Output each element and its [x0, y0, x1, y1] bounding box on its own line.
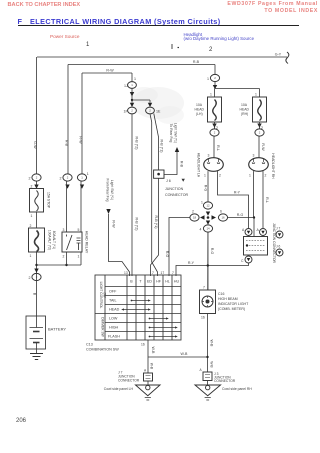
svg-text:1: 1 [78, 255, 80, 259]
headlight LH [204, 158, 224, 172]
wire indicator feed down [207, 232, 209, 290]
wire left main vertical [36, 57, 38, 174]
svg-text:HEAD: HEAD [240, 108, 250, 112]
svg-text:2: 2 [216, 126, 218, 130]
svg-text:(LH): (LH) [196, 112, 203, 116]
svg-text:C16: C16 [218, 292, 224, 296]
title: F ELECTRICAL WIRING DIAGRAM [18, 17, 22, 26]
svg-text:HU: HU [174, 280, 180, 284]
svg-text:3: 3 [253, 154, 255, 158]
svg-text:Cowl side panel LH: Cowl side panel LH [104, 387, 134, 391]
svg-text:HEADLIGHT RH: HEADLIGHT RH [271, 153, 275, 179]
svg-text:FLASH: FLASH [108, 335, 120, 339]
svg-text:13: 13 [124, 271, 128, 275]
svg-text:W-B: W-B [181, 352, 189, 356]
arrow below coil connector [65, 185, 69, 189]
svg-text:DIMMER SW: DIMMER SW [101, 317, 105, 337]
connector on battery wire [32, 273, 41, 280]
svg-text:R-G: R-G [237, 213, 244, 217]
svg-text:CONNECTOR: CONNECTOR [214, 379, 236, 383]
link: BACK TO CHAPTER INDEX [8, 2, 81, 8]
svg-text:R-W: R-W [112, 220, 116, 228]
pin circle A left [245, 229, 252, 236]
G-Y continuation curl [286, 52, 289, 64]
svg-text:R-B: R-B [180, 161, 184, 168]
headlight RH [249, 158, 269, 172]
svg-text:16: 16 [221, 216, 225, 220]
connector 1E [146, 107, 155, 114]
arrow from rear fog [106, 209, 110, 214]
wire between fuses [36, 181, 38, 228]
wire switch ED to ground [147, 340, 149, 373]
node junction dot [131, 99, 133, 101]
svg-text:BATTERY: BATTERY [48, 327, 66, 332]
svg-text:1: 1 [210, 93, 212, 97]
svg-text:1: 1 [204, 174, 206, 178]
svg-text:TAIL: TAIL [109, 299, 117, 303]
wire right branch to JC [228, 218, 254, 237]
arrow below 1J [130, 92, 134, 97]
svg-text:(COMB. METER): (COMB. METER) [218, 307, 245, 311]
wire to headlight fuses [215, 82, 260, 98]
svg-text:R-G: R-G [204, 185, 208, 192]
svg-text:JUNCTION: JUNCTION [165, 187, 184, 191]
table headers [130, 280, 179, 284]
svg-text:14: 14 [206, 227, 210, 231]
svg-text:C13: C13 [86, 343, 93, 347]
svg-text:To Rear Fog: To Rear Fog [169, 124, 173, 143]
column tick 1 [171, 44, 173, 49]
svg-text:HEADLIGHT LH: HEADLIGHT LH [197, 153, 201, 178]
label J6 junction connector [165, 179, 188, 197]
connector on relay coil wire [63, 174, 72, 181]
node R-G joins RH pin1 [253, 216, 255, 218]
svg-text:R-L: R-L [216, 145, 220, 151]
wire RH pin1 down [253, 171, 255, 217]
wire jc bottom to R-Y bus [176, 263, 249, 276]
svg-text:1: 1 [249, 174, 251, 178]
svg-text:G-W: G-W [33, 141, 37, 149]
wire 1E straight to switch [150, 114, 158, 276]
svg-text:2: 2 [67, 176, 69, 180]
svg-text:5: 5 [78, 228, 80, 232]
table contact arrows [124, 301, 175, 337]
svg-text:R-B (*1): R-B (*1) [160, 140, 164, 153]
junction connector J6 box [154, 170, 164, 178]
svg-text:1: 1 [31, 214, 33, 218]
battery [26, 316, 46, 349]
connector right of junction [218, 214, 227, 221]
wire indicator to ground [207, 314, 209, 373]
node main junction [35, 264, 37, 266]
connector RH 2 [255, 129, 264, 136]
link: EWD307F Pages From Manual [227, 1, 318, 14]
svg-text:SW: SW [103, 292, 107, 298]
svg-text:4: 4 [200, 228, 202, 232]
svg-text:2: 2 [265, 174, 267, 178]
svg-text:R-B (*1): R-B (*1) [154, 216, 158, 229]
svg-text:12: 12 [206, 204, 210, 208]
column label 2 [209, 47, 212, 53]
svg-text:R-W: R-W [79, 136, 83, 144]
svg-text:G-Y: G-Y [275, 53, 282, 57]
svg-text:A: A [242, 228, 245, 232]
svg-text:LIGHT CONTROL: LIGHT CONTROL [99, 282, 103, 309]
svg-text:80A ALT (*1): 80A ALT (*1) [52, 231, 56, 249]
svg-text:CONNECTOR: CONNECTOR [118, 379, 140, 383]
svg-text:1: 1 [255, 93, 257, 97]
svg-text:2: 2 [29, 276, 31, 280]
arrow into 1E [148, 103, 152, 107]
connector LH 2 [210, 129, 219, 136]
arrow up to rear fog light [175, 147, 179, 152]
svg-text:16: 16 [141, 343, 145, 347]
wire J6 to rear fog takeoff [164, 152, 177, 175]
fuse 10A HEAD LH [208, 97, 222, 122]
table row labels [108, 290, 120, 339]
svg-text:R-B (*2): R-B (*2) [135, 137, 139, 150]
fuse 100A ALT [29, 228, 45, 252]
junction connector J7 [144, 373, 153, 381]
svg-text:R-G: R-G [165, 251, 169, 258]
svg-text:2: 2 [29, 177, 31, 181]
indicator C16 [200, 290, 216, 314]
wire fuse RH to lamp [258, 122, 261, 158]
svg-text:HL: HL [165, 280, 170, 284]
node indicator tap [207, 264, 209, 266]
svg-text:R-G: R-G [210, 248, 214, 255]
label: Headlight source [184, 33, 255, 42]
wire rear fog to switch B [109, 214, 130, 276]
arrow below connector 2 [213, 85, 217, 89]
svg-text:2: 2 [131, 109, 133, 113]
arrow on battery wire [34, 269, 38, 273]
svg-text:INDICATOR LIGHT: INDICATOR LIGHT [218, 302, 249, 306]
label To Rear Fog Light SW [169, 123, 178, 143]
svg-text:1: 1 [201, 201, 203, 205]
svg-text:W-B: W-B [210, 340, 214, 348]
svg-text:R-B (*2): R-B (*2) [135, 218, 139, 231]
ground LH [147, 381, 149, 385]
svg-text:1: 1 [81, 176, 83, 180]
fuse 10A HEAD RH [253, 97, 267, 122]
svg-text:(RH): (RH) [241, 112, 248, 116]
svg-text:B: B [130, 280, 133, 284]
svg-text:10A: 10A [196, 103, 203, 107]
svg-text:1: 1 [134, 77, 136, 81]
connector pin digits [36, 76, 261, 279]
label From Rear Fog Light SW [106, 179, 115, 202]
svg-text:7: 7 [172, 271, 174, 275]
wire to relay contacts [37, 264, 82, 266]
wire RH pin2 down [262, 171, 264, 228]
connector cluster above junction [203, 202, 212, 209]
wire 1J to junction [131, 88, 133, 100]
connector on R-W wire [77, 174, 86, 181]
wire fuse2 to battery [36, 252, 38, 316]
node W-B junction [206, 356, 208, 358]
wire LH pin1 down [207, 171, 209, 202]
label: Power Source [50, 34, 79, 39]
svg-text:W-B: W-B [209, 361, 213, 367]
svg-text:2: 2 [60, 177, 62, 181]
svg-text:10A: 10A [241, 103, 248, 107]
svg-text:W-B: W-B [150, 363, 154, 369]
svg-text:100A ALT (*2): 100A ALT (*2) [48, 230, 52, 250]
svg-text:COMBINATION SW: COMBINATION SW [86, 348, 119, 352]
battery ground [36, 349, 38, 353]
wire R-W down to 1J [131, 73, 133, 82]
arrow below LH fuse [212, 124, 216, 128]
svg-text:A: A [144, 369, 147, 373]
svg-text:6: 6 [220, 210, 222, 214]
wire branch to 1E [132, 100, 150, 103]
arrow below left connector [34, 185, 38, 189]
svg-text:Light SW (*1): Light SW (*1) [174, 123, 178, 143]
svg-text:2: 2 [219, 174, 221, 178]
svg-text:C: C [241, 259, 244, 263]
svg-text:Cowl side panel RH: Cowl side panel RH [222, 387, 252, 391]
4-way junction node [200, 212, 216, 225]
title underline [18, 25, 299, 26]
ground RH [207, 381, 209, 385]
wire R-W vertical [81, 73, 83, 174]
svg-text:HIGH: HIGH [109, 326, 119, 330]
svg-text:Light SW (*1): Light SW (*1) [110, 180, 114, 200]
svg-text:1E: 1E [156, 110, 161, 114]
node relay contact [65, 264, 67, 266]
top bus G-Y wire [37, 56, 287, 58]
connector 1J [128, 82, 137, 89]
connector below junction [203, 225, 212, 232]
svg-text:J 7: J 7 [276, 227, 280, 231]
svg-text:R-Y: R-Y [188, 261, 195, 265]
wire R-B down to connector 2 [214, 65, 216, 75]
svg-text:3: 3 [208, 154, 210, 158]
svg-text:1: 1 [131, 83, 133, 87]
svg-text:18: 18 [193, 216, 197, 220]
svg-text:R-W: R-W [106, 69, 114, 73]
svg-text:HEAD: HEAD [195, 108, 205, 112]
svg-text:2: 2 [259, 131, 261, 135]
svg-text:HF: HF [156, 280, 162, 284]
svg-text:HEAD RELAY: HEAD RELAY [85, 231, 89, 254]
svg-text:T: T [139, 280, 142, 284]
fuse 15A STOP [30, 189, 44, 213]
connector left of junction [190, 214, 199, 221]
svg-text:2: 2 [30, 224, 32, 228]
jc bubble bottom [276, 249, 283, 256]
wire W-B bus [148, 356, 208, 358]
wire left branch to HL [169, 218, 190, 277]
svg-text:7: 7 [152, 271, 154, 275]
combination switch table [95, 275, 181, 340]
svg-text:A: A [257, 228, 260, 232]
svg-text:R-W: R-W [261, 143, 265, 151]
svg-text:1: 1 [87, 172, 89, 176]
svg-text:7: 7 [203, 286, 205, 290]
svg-text:2: 2 [36, 176, 38, 180]
svg-text:A: A [200, 368, 203, 372]
svg-text:1: 1 [207, 77, 209, 81]
svg-text:J 6: J 6 [166, 179, 171, 183]
wire to head relay coil [67, 65, 69, 175]
svg-text:1J: 1J [124, 84, 128, 88]
bus R-W wire [82, 72, 132, 74]
svg-text:J 6: J 6 [276, 245, 280, 249]
svg-text:2: 2 [31, 185, 33, 189]
connector 1F [128, 107, 137, 114]
wires relay pins [67, 181, 82, 265]
wire 1E diagonal through J6 [151, 114, 159, 277]
svg-text:LOW: LOW [109, 317, 118, 321]
svg-text:W-B: W-B [151, 347, 155, 355]
svg-text:From Rear Fog: From Rear Fog [106, 179, 110, 202]
svg-text:3: 3 [63, 228, 65, 232]
svg-text:2: 2 [36, 275, 38, 279]
svg-text:R-Y: R-Y [234, 191, 241, 195]
svg-text:CONNECTOR: CONNECTOR [165, 193, 188, 197]
svg-text:2: 2 [214, 131, 216, 135]
arrow below RH fuse [257, 124, 261, 128]
junction connector block [244, 237, 268, 256]
svg-text:2: 2 [192, 210, 194, 214]
wire R-B *2 to switch B [131, 114, 133, 276]
connector row: left main [32, 174, 41, 181]
pin circle bottom [245, 256, 252, 263]
connector 2 top [210, 74, 219, 81]
svg-text:2: 2 [63, 255, 65, 259]
svg-text:1: 1 [30, 254, 32, 258]
svg-text:R-L: R-L [265, 197, 269, 203]
wire fuse LH to lamp [213, 122, 216, 158]
svg-text:2: 2 [261, 126, 263, 130]
bus R-B wire [68, 64, 215, 66]
arrow into 1F [130, 103, 134, 107]
pin circle A right [260, 229, 267, 236]
svg-text:OFF: OFF [109, 290, 117, 294]
svg-text:15A STOP: 15A STOP [47, 192, 51, 209]
page number [16, 418, 26, 424]
svg-text:HEAD: HEAD [109, 308, 120, 312]
svg-text:R-B: R-B [193, 60, 200, 64]
svg-text:ED: ED [147, 280, 152, 284]
arrow below R-W connector [80, 185, 84, 189]
svg-text:16: 16 [201, 316, 205, 320]
svg-text:17: 17 [161, 271, 165, 275]
table pin labels [124, 271, 174, 347]
svg-text:R-B: R-B [65, 140, 69, 147]
svg-text:HIGH BEAM: HIGH BEAM [218, 297, 238, 301]
wire LH pin2 to RY corner [218, 171, 249, 228]
column label 1 [86, 42, 89, 48]
relay HEAD RELAY [62, 232, 82, 252]
jc bubble top [276, 231, 283, 238]
junction connector J3 [203, 372, 212, 381]
svg-text:B: B [33, 293, 37, 296]
svg-text:2: 2 [214, 76, 216, 80]
